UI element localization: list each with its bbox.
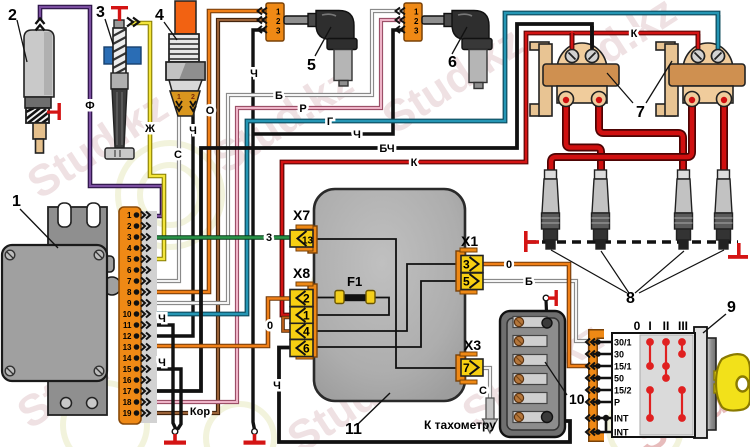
wire О orange: ECU pin 13 to X8 pin 2	[147, 299, 291, 347]
ground symbol left of spark plugs (red)	[524, 231, 539, 252]
svg-text:Б: Б	[525, 276, 533, 288]
boot plug 6	[422, 11, 492, 89]
svg-text:10: 10	[569, 391, 585, 407]
sensor 2 (component 2)	[24, 30, 54, 153]
connector X7 pin 13	[290, 207, 317, 253]
tachometer arrow	[483, 398, 498, 433]
switch positions header 0 I II III	[634, 319, 688, 333]
svg-text:Б: Б	[275, 90, 283, 102]
svg-text:5: 5	[127, 255, 132, 264]
spark plug 1	[542, 170, 560, 249]
svg-text:12: 12	[123, 332, 132, 341]
svg-text:О: О	[206, 105, 215, 117]
svg-text:X3: X3	[464, 337, 481, 353]
watermark swirl logo circles	[63, 143, 681, 447]
svg-text:X7: X7	[293, 207, 310, 223]
svg-text:2: 2	[303, 292, 310, 306]
svg-text:15: 15	[123, 365, 132, 374]
wire Б white: ECU pin 9 to connector 6 pin 1	[147, 11, 404, 303]
internal circuit line X8-4 to X1-3	[313, 264, 461, 331]
svg-text:1: 1	[414, 8, 419, 17]
wire Ч black: ECU pin 11 to ground G1	[147, 325, 176, 430]
svg-text:6: 6	[303, 342, 310, 356]
switch contacts column I	[647, 339, 653, 421]
svg-text:11: 11	[123, 321, 132, 330]
svg-text:7: 7	[127, 277, 132, 286]
svg-text:1: 1	[127, 211, 132, 220]
wire Р pink: ECU pin 18 to connector 6 pin 2	[147, 20, 404, 402]
key (yellow)	[714, 354, 750, 410]
svg-text:II: II	[663, 319, 670, 333]
connector 5 (3-pin)	[258, 3, 285, 41]
wire С grey: sensor 4 pin 1 to ECU pin 7	[147, 110, 179, 281]
svg-text:8: 8	[626, 290, 635, 307]
wire ends into coil terminals (drawn over domes)	[572, 15, 718, 51]
connector strip to ignition switch (C-shaped bracket)	[593, 334, 604, 437]
wire Ч black: sensor 4 pin 2 to ECU pin 12	[147, 110, 193, 336]
switch contacts column III	[679, 339, 685, 421]
fuse F1 circuit: X8-2 through F1 back to X8-1	[313, 298, 389, 316]
svg-text:2: 2	[191, 94, 195, 101]
connector 6 (3-pin)	[396, 3, 423, 41]
svg-text:1: 1	[303, 309, 310, 323]
svg-text:11: 11	[345, 421, 362, 438]
HV cable coil B left tower to spark plug 1	[551, 98, 692, 172]
coil terminal screws (over wires)	[566, 50, 725, 63]
connector X8 pins 2,1,4,6	[290, 265, 317, 359]
svg-text:8: 8	[127, 288, 132, 297]
wire БЧ black: ECU pin 17 to ignition coil A terminal	[147, 24, 592, 391]
svg-text:Г: Г	[327, 116, 334, 128]
svg-text:15/1: 15/1	[614, 362, 632, 372]
svg-text:2: 2	[127, 222, 132, 231]
fuses F (6x)	[513, 317, 547, 423]
svg-text:1: 1	[12, 193, 21, 210]
wire Ф violet: sensor 2 to ECU pin 1	[40, 7, 162, 216]
connector X3 pin 7	[456, 337, 483, 384]
svg-text:Кор: Кор	[190, 406, 210, 418]
wire С grey: X3 pin 7 to tachometer	[481, 368, 490, 400]
wire О orange: connector 5 pin 1 to ECU pin 8	[147, 11, 266, 292]
svg-text:Ч: Ч	[158, 313, 166, 325]
ignition switch contact table	[612, 333, 695, 437]
wire Ж yellow: sensor 3 to ECU pin 5	[131, 23, 164, 259]
sensor 4 (component 4)	[166, 1, 205, 116]
svg-text:6: 6	[448, 54, 457, 71]
svg-text:6: 6	[127, 266, 132, 275]
svg-text:Р: Р	[299, 103, 306, 115]
svg-text:7: 7	[463, 361, 470, 375]
junction dot and jumper INT-INT	[603, 415, 609, 421]
svg-text:INT: INT	[614, 428, 629, 438]
HV cable coil B right tower to spark plug 4	[720, 98, 728, 172]
sensor 3 (component 3)	[104, 20, 141, 159]
switch contacts column II	[663, 339, 669, 381]
svg-text:БЧ: БЧ	[379, 143, 394, 155]
ignition coil B (item 7 right)	[656, 42, 745, 116]
svg-text:3: 3	[127, 233, 132, 242]
svg-text:1: 1	[276, 8, 281, 17]
boot plug 5	[284, 11, 357, 87]
svg-text:9: 9	[127, 299, 132, 308]
ECU connector strip (pins 1-19)	[119, 207, 141, 424]
svg-text:1: 1	[177, 94, 181, 101]
label 11 with pointer	[358, 393, 390, 424]
spark plug 2	[592, 170, 610, 249]
arrow at sensor 3 wire	[127, 18, 139, 27]
connector X1 pins 3,5	[456, 233, 483, 294]
svg-text:10: 10	[123, 310, 132, 319]
ignition switch (item 9) body	[694, 327, 716, 438]
svg-text:К: К	[411, 157, 418, 169]
wire black: connector 5 pin 3 down to ground G2, junction with line Ч	[253, 30, 266, 430]
label 7 with pointer lines	[607, 61, 672, 103]
svg-text:III: III	[678, 319, 688, 333]
ground G2 (connector 5 pin 3 shield)	[244, 429, 266, 445]
ECU side bosses	[100, 256, 114, 272]
wires strip to switch box (8 stubs)	[593, 342, 613, 432]
HV cable coil A right tower to spark plug 3	[599, 98, 683, 172]
svg-text:16: 16	[123, 376, 132, 385]
ECU back plate (item 1)	[48, 203, 107, 415]
svg-text:0: 0	[506, 259, 512, 271]
wire black: fuse box top terminal to +12V symbol	[546, 300, 547, 323]
svg-text:Ф: Ф	[85, 100, 94, 112]
spark plug 3	[675, 170, 693, 249]
wire О orange: X1 pin 3 to ignition switch 15/1	[481, 264, 589, 366]
power symbol +12V (red) at fuse box	[543, 290, 558, 306]
svg-text:2: 2	[414, 17, 419, 26]
strip pin arrows (8)	[586, 339, 600, 436]
svg-text:30: 30	[614, 350, 624, 360]
svg-text:X1: X1	[461, 233, 478, 249]
svg-text:3: 3	[266, 232, 272, 244]
internal circuit line X7-13 to X3-7	[313, 239, 461, 368]
svg-text:50: 50	[614, 374, 624, 384]
svg-text:3: 3	[463, 258, 470, 272]
svg-text:3: 3	[276, 27, 281, 36]
ECU pin rows: numbers, dots and arrows	[123, 211, 132, 418]
spark plug 4	[715, 170, 733, 249]
svg-text:4: 4	[303, 325, 310, 339]
fuse F1	[335, 274, 375, 304]
svg-text:Ч: Ч	[353, 129, 361, 141]
power symbol at sensor 2 (red)	[47, 103, 61, 120]
svg-text:I: I	[648, 319, 651, 333]
wire Г teal: ECU pin 10 to ignition coil B terminal	[147, 13, 718, 314]
svg-text:4: 4	[155, 7, 164, 24]
fuse box terminals	[542, 318, 552, 328]
wire Ч black: connector 5 pin 3 to connector 6 pin 3	[253, 30, 404, 134]
svg-text:2: 2	[276, 17, 281, 26]
svg-text:Ч: Ч	[189, 125, 197, 137]
ground symbol right of spark plugs (red)	[728, 243, 748, 259]
svg-text:С: С	[174, 149, 182, 161]
power symbol at sensor 3 (red)	[111, 6, 128, 21]
wire Б white: X1 pin 5 to ignition switch 30/1	[481, 281, 589, 341]
ignition coil A (item 7 left)	[530, 42, 619, 116]
wire Ч black: X8 pin 6 to fuse box terminal	[279, 348, 570, 443]
svg-text:Ч: Ч	[273, 380, 281, 392]
svg-text:К тахометру: К тахометру	[424, 418, 496, 432]
wire К red: X8 pin 1 to ignition coils supply	[282, 31, 698, 315]
svg-text:17: 17	[123, 387, 132, 396]
arrow at sensor 2 top	[36, 19, 45, 31]
control unit box (item 11)	[314, 189, 465, 401]
svg-text:9: 9	[727, 299, 736, 316]
svg-text:5: 5	[463, 275, 470, 289]
wire 3 green: ECU pin 3 to X7 pin 13	[147, 235, 292, 240]
dashed ground line through spark plugs	[527, 240, 738, 244]
svg-text:13: 13	[302, 236, 314, 247]
ground G1 (ECU pins 11,15)	[164, 429, 186, 445]
ECU grey band behind connector wires	[140, 211, 157, 423]
label 9 with pointer	[703, 314, 726, 333]
svg-text:7: 7	[636, 104, 645, 121]
svg-text:14: 14	[123, 354, 132, 363]
svg-text:Ж: Ж	[144, 123, 155, 135]
svg-text:INT: INT	[614, 414, 629, 424]
svg-text:0: 0	[634, 319, 641, 333]
wire jumper X8 pin1 to pin4	[283, 318, 290, 332]
HV cable coil A left tower to spark plug 2	[566, 98, 601, 172]
svg-text:18: 18	[123, 398, 132, 407]
svg-text:F1: F1	[347, 274, 362, 289]
svg-text:Ч: Ч	[250, 68, 258, 80]
wire Ч black: ECU pin 15 to ground G1	[147, 369, 181, 430]
svg-text:С: С	[479, 385, 487, 397]
svg-text:X8: X8	[293, 265, 310, 281]
svg-text:5: 5	[307, 57, 316, 74]
svg-text:15/2: 15/2	[614, 386, 632, 396]
label 10 with pointer	[545, 362, 567, 395]
svg-text:19: 19	[123, 409, 132, 418]
label 8 with pointer lines from plug tips	[551, 250, 724, 293]
ECU front box	[2, 245, 107, 381]
svg-text:3: 3	[414, 27, 419, 36]
svg-text:P: P	[614, 398, 620, 408]
svg-text:3: 3	[96, 4, 105, 21]
svg-text:Ч: Ч	[158, 357, 166, 369]
internal circuit line X8-6 to X1-5	[313, 281, 461, 347]
svg-text:К: К	[631, 28, 638, 40]
svg-text:4: 4	[127, 244, 132, 253]
svg-text:13: 13	[123, 343, 132, 352]
svg-text:2: 2	[8, 7, 17, 24]
fuse box (item 10)	[500, 311, 565, 437]
svg-text:0: 0	[267, 320, 273, 332]
svg-text:30/1: 30/1	[614, 338, 632, 348]
wire Кор brown: connector 5 pin 2 to ECU pin 19	[147, 20, 266, 413]
